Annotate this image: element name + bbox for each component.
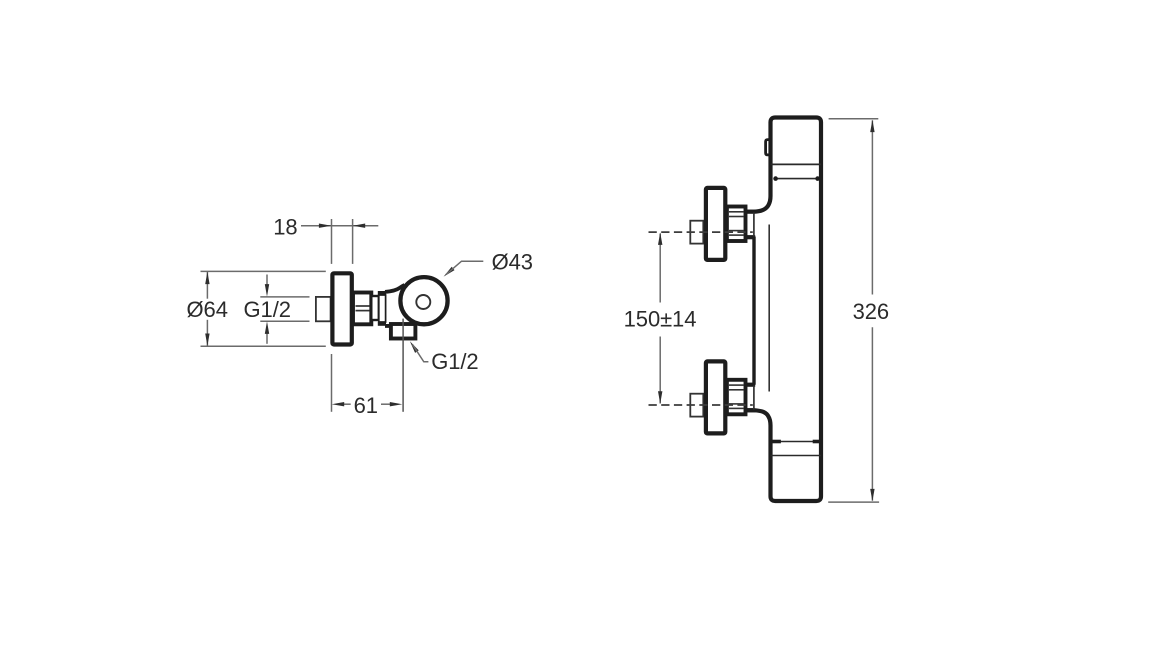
dimension G1/2: arrow tails — [266, 275, 268, 286]
top escutcheon front view — [706, 188, 725, 260]
nut hex flat line upper — [356, 305, 370, 307]
body separation line upper — [771, 163, 822, 165]
svg-text:18: 18 — [273, 215, 297, 240]
top supply stub front view — [690, 221, 703, 244]
dimension O64: extension lines — [201, 270, 326, 272]
dimension G1/2 left: extension lines — [260, 296, 309, 298]
leader G1/2 bottom line — [413, 345, 429, 362]
svg-text:61: 61 — [354, 393, 378, 418]
svg-text:Ø64: Ø64 — [187, 297, 228, 322]
dimension 61: extension line left — [331, 354, 333, 412]
mixer body tube front view — [746, 118, 821, 502]
bottom check valve housing front view — [744, 386, 754, 408]
top union nut front view — [727, 207, 746, 242]
leader O43 line — [446, 261, 483, 274]
wall escutcheon flange left view — [332, 273, 351, 344]
body pin line lower with end dashes — [771, 441, 822, 443]
outlet centerline / 61 extension line — [402, 319, 404, 412]
dimension O64: dimension line — [206, 272, 208, 299]
arrow 326 up — [870, 120, 874, 133]
wall supply stub (G1/2 pipe) left view — [316, 297, 331, 321]
dimension 18: dimension line — [301, 225, 331, 227]
valve body left view — [385, 285, 405, 292]
body inner thin edge line — [768, 225, 770, 392]
bottom outlet port left view — [391, 324, 416, 339]
body mid-section left edge — [752, 237, 755, 385]
bottom escutcheon front view — [706, 361, 725, 433]
arrow 18 right-pointing — [319, 224, 332, 228]
body separation line lower — [771, 455, 822, 457]
leader O43 arrow — [444, 267, 455, 277]
arrow 326 down — [870, 489, 874, 502]
arrow 61 right-pointing — [390, 402, 403, 406]
bottom union nut front view — [727, 380, 746, 415]
top check valve housing front view — [744, 213, 754, 235]
dimension 326: dimension line — [871, 120, 873, 294]
bottom centerline dashed — [649, 404, 753, 406]
dimension 326: extension lines — [829, 118, 879, 120]
svg-text:326: 326 — [853, 299, 889, 324]
body pin line upper with dots — [776, 178, 818, 180]
center boss circle — [416, 295, 430, 309]
svg-text:G1/2: G1/2 — [244, 297, 291, 322]
cartridge circle body left view — [400, 277, 447, 324]
arrow G1/2 up — [265, 321, 269, 334]
svg-text:150±14: 150±14 — [624, 307, 697, 332]
svg-text:G1/2: G1/2 — [431, 349, 478, 374]
dimension 18: extension lines — [331, 219, 333, 264]
nut hex flat line lower — [356, 310, 370, 312]
bottom supply stub front view — [690, 394, 703, 417]
top centerline dashed — [649, 231, 753, 233]
leader G1/2 bottom arrow — [410, 341, 419, 353]
arrow O64 up — [205, 272, 209, 285]
arrow G1/2 down — [265, 284, 269, 297]
mounting clip on body — [766, 140, 771, 155]
arrow 150 down — [658, 391, 662, 404]
dimension 150+-14: dimension line — [659, 234, 661, 303]
arrow O64 down — [205, 334, 209, 347]
arrow 61 left-pointing — [332, 402, 345, 406]
connector collar left view — [371, 296, 379, 320]
check valve housing left view — [379, 295, 386, 322]
arrow 18 left-pointing — [353, 224, 366, 228]
arrow 150 up — [658, 232, 662, 245]
union nut left view — [353, 293, 371, 325]
svg-text:Ø43: Ø43 — [492, 249, 533, 274]
dimension 61: dimension line — [344, 403, 351, 405]
